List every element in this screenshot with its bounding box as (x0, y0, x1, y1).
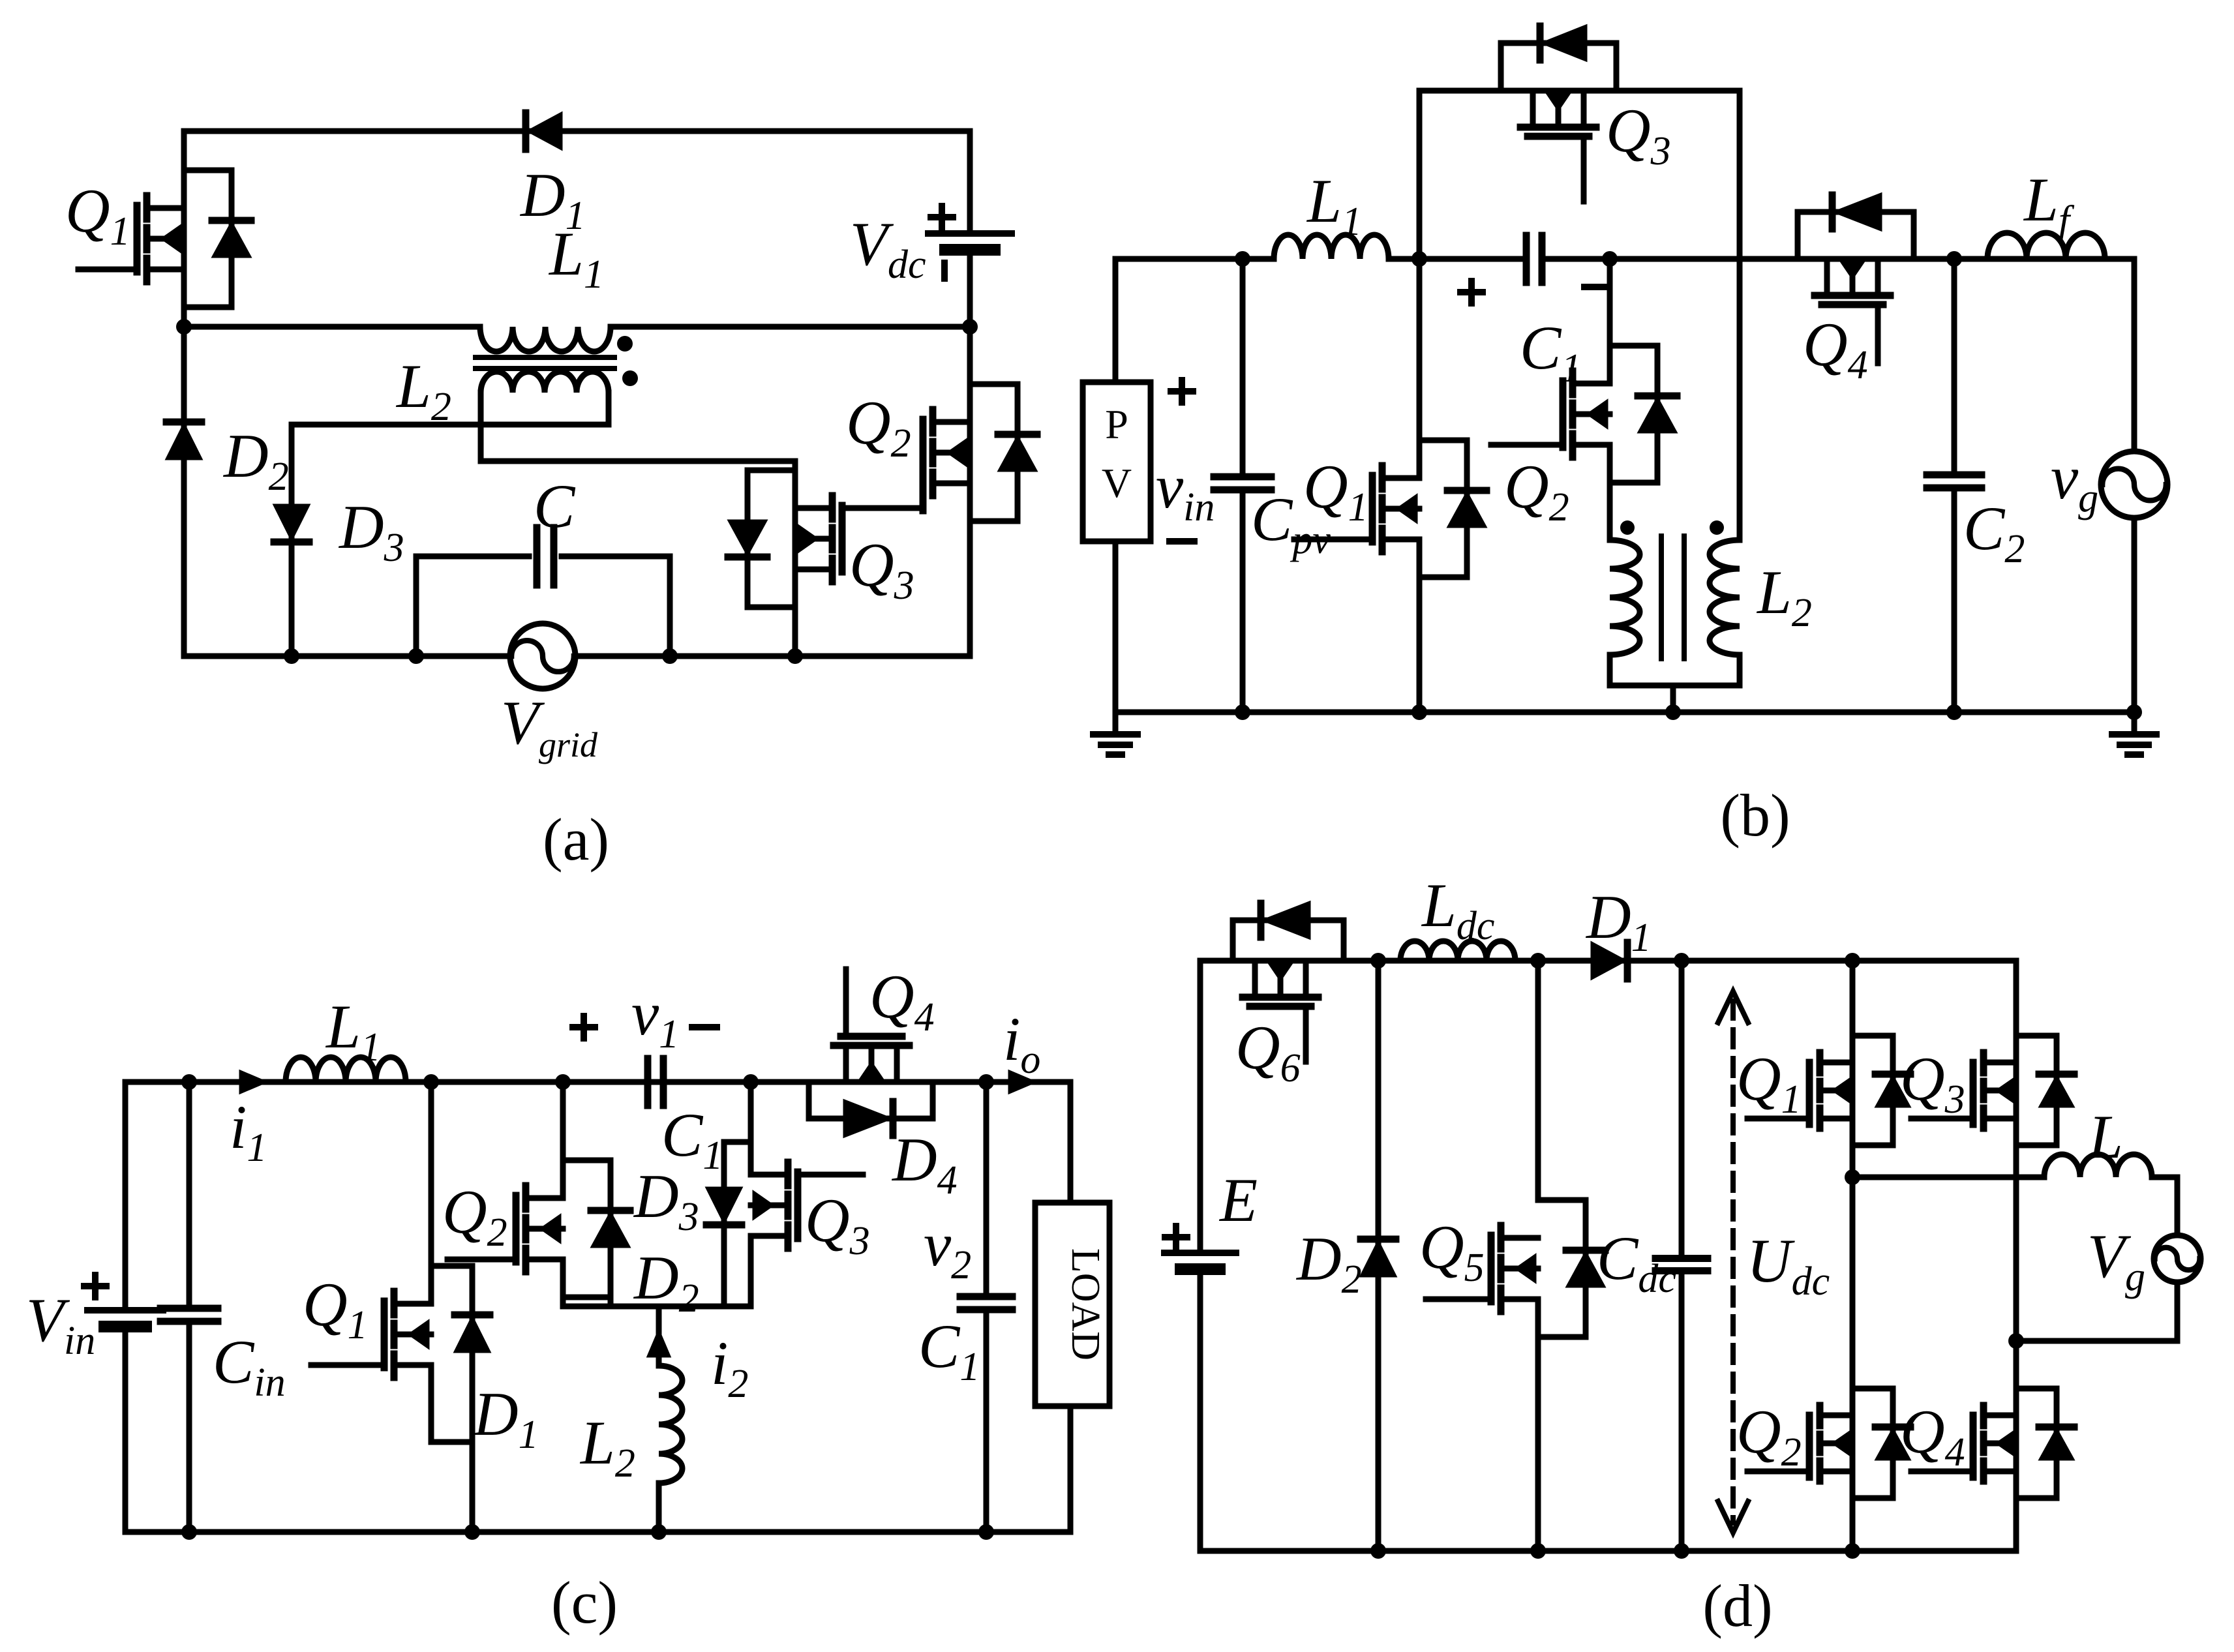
svg-text:LOAD: LOAD (1063, 1248, 1108, 1360)
svg-text:(c): (c) (551, 1569, 618, 1636)
svg-text:(d): (d) (1702, 1572, 1772, 1639)
svg-text:(a): (a) (543, 806, 609, 873)
svg-text:E: E (1218, 1165, 1258, 1235)
svg-text:L: L (2087, 1102, 2123, 1171)
svg-text:P: P (1105, 401, 1128, 447)
svg-text:(b): (b) (1720, 782, 1790, 849)
svg-text:C: C (534, 472, 576, 541)
svg-text:V: V (1102, 460, 1132, 506)
